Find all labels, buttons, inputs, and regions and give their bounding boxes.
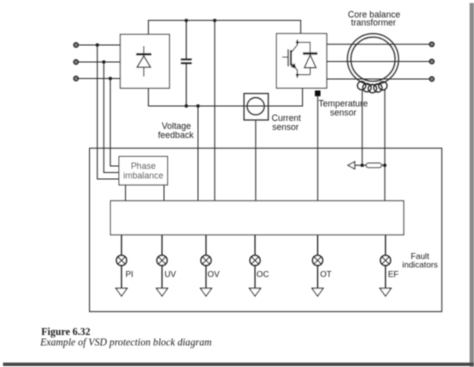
indicator OC	[249, 235, 260, 296]
wire DC- feedback tap	[197, 106, 199, 201]
indicator OV	[200, 235, 211, 296]
protection enclosure box	[90, 148, 442, 311]
wire phase imbalance leg 1	[125, 185, 127, 201]
wire inverter output U	[327, 43, 430, 45]
wire CBT coil right lead	[384, 90, 386, 201]
wire phase imbalance leg 2	[163, 185, 165, 201]
wire temperature sensor lead	[317, 96, 319, 201]
node DC+ voltage feedback junction	[213, 19, 216, 22]
wire earth fault signal	[354, 164, 385, 166]
phase imbalance box	[119, 157, 168, 185]
terminal input L1	[74, 43, 78, 47]
wire DC+ bus	[148, 20, 300, 34]
temperature sensor (thermal contact)	[315, 91, 321, 97]
node DC+ capacitor junction	[185, 19, 188, 22]
node earth fault right junction	[383, 164, 386, 167]
svg-text:imbalance: imbalance	[123, 170, 163, 180]
page shadow bottom	[3, 363, 474, 366]
svg-text:Example of VSD protection bloc: Example of VSD protection block diagram	[39, 338, 211, 349]
svg-text:OV: OV	[208, 269, 220, 279]
CBT secondary coil	[357, 81, 387, 93]
svg-text:sensor: sensor	[272, 122, 298, 132]
terminal input L3	[74, 76, 78, 80]
svg-text:Phase: Phase	[131, 161, 156, 171]
core balance transformer inner ring	[351, 37, 395, 81]
rectifier box	[120, 34, 169, 88]
current sensor circle	[247, 98, 264, 115]
svg-text:EF: EF	[388, 269, 399, 279]
node L1 tap	[96, 43, 99, 46]
indicator UV	[156, 235, 167, 296]
page shadow right	[470, 3, 474, 367]
indicator EF	[380, 235, 391, 296]
node Q1 emitter / D2 anode	[296, 74, 299, 77]
indicator PI	[116, 235, 127, 296]
svg-text:UV: UV	[165, 269, 177, 279]
wire L1 tap to phase imbalance	[97, 45, 119, 179]
current sensor box	[244, 94, 268, 121]
svg-text:indicators: indicators	[402, 259, 438, 269]
diode D2 (inverter freewheel)	[297, 42, 317, 74]
wire L3 tap to phase imbalance	[110, 79, 119, 167]
indicator OT	[312, 235, 323, 296]
wire current sensor output	[255, 120, 257, 201]
protection logic bar	[111, 201, 404, 235]
wire DC- bus	[148, 88, 302, 106]
node DC- capacitor junction	[185, 104, 188, 107]
terminal input L2	[74, 60, 78, 64]
wire inverter output V	[327, 61, 430, 63]
wire inverter output W	[327, 78, 430, 80]
node L2 tap	[102, 60, 105, 63]
svg-text:OC: OC	[257, 269, 269, 279]
svg-text:PI: PI	[126, 269, 134, 279]
node L3 tap	[109, 77, 112, 80]
core balance transformer outer ring	[347, 34, 398, 85]
diode D1 (rectifier)	[136, 46, 151, 77]
node Q1 collector / D2 cathode	[296, 41, 299, 44]
inverter box	[277, 34, 327, 89]
terminal output V	[430, 59, 434, 63]
wire phase L3 input	[78, 78, 120, 80]
wire voltage feedback tap	[214, 20, 216, 200]
node earth fault left junction	[361, 164, 364, 167]
wire CBT coil left lead	[361, 90, 363, 165]
wire phase L2 input	[78, 61, 120, 63]
svg-text:Figure 6.32: Figure 6.32	[41, 327, 90, 338]
earth fault sensor capsule	[366, 163, 381, 167]
svg-text:feedback: feedback	[158, 130, 194, 140]
capacitor C1	[181, 20, 192, 106]
terminal output U	[430, 42, 434, 46]
terminal output W	[430, 77, 434, 81]
node DC- feedback junction	[196, 104, 199, 107]
wire phase L1 input	[78, 44, 120, 46]
wire L2 tap to phase imbalance	[104, 62, 119, 173]
svg-text:transformer: transformer	[351, 18, 396, 28]
transistor Q1 (IGBT)	[282, 40, 297, 79]
earth fault arrow head	[348, 162, 355, 169]
svg-text:OT: OT	[320, 269, 332, 279]
svg-text:sensor: sensor	[330, 108, 356, 118]
